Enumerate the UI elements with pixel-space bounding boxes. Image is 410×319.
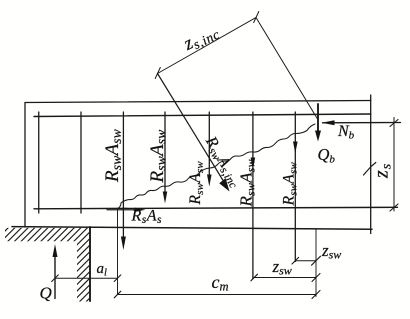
- dimension line z_s: [393, 118, 395, 212]
- inclined bar force line R_sw A_s,inc: [158, 74, 225, 183]
- tick at left end of z_s,inc: [155, 68, 160, 79]
- arrowhead of Q reaction (points up): [53, 244, 58, 257]
- tick left end z_sw lower: [251, 274, 258, 281]
- svg-text:al: al: [97, 261, 108, 279]
- svg-text:RsAs: RsAs: [131, 208, 163, 227]
- svg-text:RswAsw: RswAsw: [102, 129, 124, 183]
- support hatching: [0, 226, 168, 305]
- beam top edge: [25, 101, 371, 103]
- svg-text:Nb: Nb: [337, 123, 355, 142]
- stirrup 4: [164, 112, 166, 193]
- svg-text:RswAsw: RswAsw: [237, 159, 258, 207]
- inclined crack (wavy): [118, 124, 315, 209]
- dimension line z_sw upper: [295, 260, 316, 262]
- svg-text:zs,inc: zs,inc: [180, 20, 222, 56]
- dimension line c_m: [118, 294, 317, 296]
- stirrup 6 with extension to dimension line: [252, 112, 254, 279]
- tick right end z_sw upper: [312, 256, 321, 265]
- tick right end z_sw lower: [312, 274, 320, 282]
- tick left end c_m: [114, 291, 121, 298]
- arrowhead of stirrup 7 force: [293, 142, 298, 154]
- svg-text:cm: cm: [212, 272, 229, 294]
- dimension line a_l: [55, 277, 118, 279]
- right extension line of z_s,inc: [256, 18, 318, 120]
- beam right edge: [370, 95, 372, 234]
- crack-start extension line down to c_m: [117, 209, 119, 295]
- tick at right end of z_s,inc: [254, 12, 259, 23]
- bottom chord line (tension reinforcement): [34, 207, 398, 209]
- svg-text:RswAsw: RswAsw: [281, 162, 300, 207]
- stirrup 5: [208, 112, 210, 176]
- beam left edge: [24, 103, 26, 228]
- tick at top of z_s: [390, 120, 398, 127]
- svg-text:zsw: zsw: [321, 241, 341, 262]
- arrowhead of inclined bar force R_sw A_s,inc: [219, 178, 229, 191]
- tick right end a_l: [114, 275, 121, 282]
- crack-end extension line down to c_m: [315, 229, 317, 297]
- support reaction Q arrow shaft: [54, 256, 56, 299]
- stirrup 2: [80, 112, 82, 213]
- arrowhead of Q_b (points down): [315, 131, 321, 142]
- break mark on beam right edge: [364, 163, 376, 176]
- svg-text:zsw: zsw: [272, 257, 292, 278]
- tick right end c_m: [312, 291, 320, 299]
- tick left end a_l: [52, 275, 59, 282]
- top chord line: [34, 114, 371, 117]
- svg-text:RswAsw: RswAsw: [187, 161, 206, 206]
- arrowhead of stirrup 3 force: [121, 237, 126, 251]
- arrowhead of R_s A_s: [135, 208, 146, 212]
- dimension line z_s,inc: [158, 18, 257, 74]
- tick left end z_sw upper: [292, 257, 299, 264]
- svg-text:Q: Q: [40, 284, 52, 303]
- Q_b force line: [317, 104, 319, 133]
- arrowhead of N_b (points left): [322, 120, 335, 125]
- tick at bottom of z_s: [390, 204, 398, 211]
- support wall right edge: [89, 227, 91, 301]
- svg-text:Qb: Qb: [318, 145, 336, 166]
- N_b extension line: [323, 122, 401, 124]
- stirrup 7 with extension to dimension line: [294, 112, 296, 262]
- svg-text:RswAsw: RswAsw: [147, 130, 169, 184]
- svg-text:zs: zs: [371, 163, 395, 179]
- stirrup 1: [38, 112, 40, 213]
- arrowhead of stirrup 6 force: [251, 158, 256, 170]
- beam bottom edge / support top: [12, 227, 372, 230]
- stirrup 3 with extension below beam: [122, 112, 124, 238]
- R_s A_s arrow shaft: [107, 209, 138, 211]
- dimension line z_sw lower: [254, 277, 316, 279]
- arrowhead of stirrup 5 force: [207, 175, 212, 187]
- arrowhead of stirrup 4 force: [163, 192, 168, 204]
